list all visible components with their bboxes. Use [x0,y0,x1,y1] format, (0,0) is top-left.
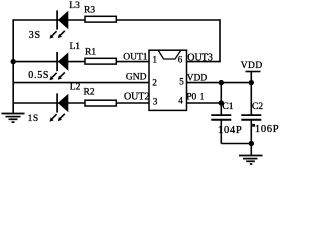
svg-text:3S: 3S [29,30,41,41]
LED L2 [50,93,69,121]
LED L1 [50,52,69,80]
svg-text:R3: R3 [84,6,95,16]
svg-text:C2: C2 [252,102,263,112]
svg-text:C1: C1 [222,102,233,112]
wire row2 (0.5S LED row) to IC pin OUT1 [13,61,149,63]
wire top-right vertical from row1 down to OUT3 [219,19,221,61]
wire row1 (3S LED row) from left rail through R3 to top-right corner [13,19,220,21]
wire right ground stem [250,144,252,156]
svg-text:L2: L2 [70,83,81,93]
wire OUT3 pin6 to top-right vertical [187,61,221,63]
svg-text:1: 1 [153,54,158,64]
svg-text:VDD: VDD [187,74,208,84]
IC U1 body (6-pin flasher IC) [149,50,187,110]
label 106P with asterisk mark [252,124,279,135]
junction node VDD wire / C2 stem [249,80,254,85]
svg-text:OUT3: OUT3 [187,52,213,63]
resistor R2 [85,100,116,106]
wire C1 lower lead [220,120,222,143]
wire GND row to IC pin GND [13,82,149,84]
svg-text:OUT2: OUT2 [124,92,150,103]
svg-text:R1: R1 [85,48,96,58]
svg-text:L3: L3 [69,1,80,11]
svg-text:106P: 106P [255,124,279,135]
svg-text:5: 5 [179,76,184,86]
svg-text:VDD: VDD [241,61,263,71]
svg-text:R2: R2 [84,88,95,98]
svg-text:P0: P0 [186,92,196,102]
svg-text:104P: 104P [218,125,242,136]
capacitor C1 [211,115,231,120]
svg-text:OUT1: OUT1 [123,52,148,62]
svg-text:0.5S: 0.5S [28,70,49,81]
junction node bottom wire / ground stem [249,141,254,146]
wire row3 (1S LED row) to IC pin OUT2 [13,102,149,104]
svg-text:GND: GND [126,73,147,83]
svg-text:4: 4 [178,96,183,106]
VDD power symbol bar [246,71,261,73]
wire VDD stem and C2 upper lead [250,72,252,115]
svg-text:2: 2 [152,78,157,88]
junction node VDD wire / C1 lead [219,80,224,85]
svg-text:1S: 1S [28,114,39,124]
IC notch [158,51,180,60]
resistor R1 [85,58,116,64]
LED L3 [50,10,69,38]
svg-text:3: 3 [153,97,158,107]
ground (right, below capacitors) [239,156,263,165]
ground (left) [2,114,25,123]
svg-text:L1: L1 [70,42,81,52]
resistor R3 [85,16,116,22]
svg-text:1: 1 [200,92,205,102]
capacitor C2 [241,115,261,120]
wire P01 pin4 to C1 lead [187,102,222,104]
wire VDD pin5 rail to C2 [187,82,252,84]
wire C1 upper lead [220,83,222,115]
junction node P01 wire / C1 lead [219,100,224,105]
junction node rail/row2 [11,59,16,64]
svg-text:6: 6 [178,54,183,64]
wire C2 lower lead [250,120,252,143]
wire left ground rail [12,19,14,113]
wire bottom connecting C1 and C2 to ground [221,143,251,145]
